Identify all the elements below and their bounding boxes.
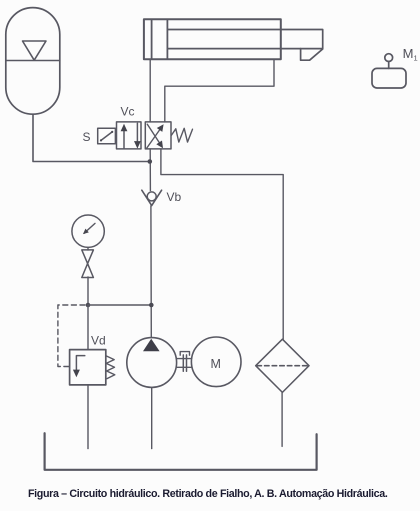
motor <box>191 337 241 387</box>
relief valve Vd body <box>70 350 106 385</box>
valve Vc left position box <box>117 122 142 149</box>
solenoid S <box>98 128 116 144</box>
wire valve P port down through node A to check valve <box>149 149 151 191</box>
pressure gauge needle <box>84 223 95 233</box>
valve Vc crossed arrows <box>147 130 160 148</box>
wire shutoff valve to node B <box>87 277 89 305</box>
accumulator <box>6 8 60 115</box>
accumulator gas/fluid separator line <box>6 60 60 62</box>
coupling shaft <box>177 358 192 360</box>
cylinder barrel <box>144 19 281 59</box>
wire node B down to Vd <box>87 305 89 350</box>
pressure gauge <box>72 215 104 247</box>
valve Vc left position arrows <box>123 131 125 149</box>
wire pump to tank <box>151 387 153 448</box>
svg-text:Figura – Circuito hidráulico.: Figura – Circuito hidráulico. Retirado d… <box>28 488 388 500</box>
relief valve Vd spring <box>106 356 115 379</box>
cylinder piston <box>151 20 153 58</box>
check valve Vb seat <box>142 190 162 205</box>
svg-text:Vd: Vd <box>91 334 106 348</box>
wire valve T port to filter <box>161 149 283 339</box>
wire gauge to shutoff valve <box>87 247 89 250</box>
pump <box>127 338 177 388</box>
valve Vc spring <box>171 128 192 142</box>
filter <box>256 339 309 392</box>
relief valve Vd internal arrow <box>76 356 84 371</box>
svg-text:M1: M1 <box>403 46 418 63</box>
tank <box>45 433 317 470</box>
svg-text:S: S <box>83 130 91 144</box>
accumulator triangle <box>23 41 47 60</box>
wire cylinder left port to valve <box>149 59 151 122</box>
node C junction dot <box>149 303 154 308</box>
svg-text:Vc: Vc <box>121 105 135 119</box>
wire Vd to tank <box>87 385 89 449</box>
cylinder rod <box>167 30 322 49</box>
svg-text:M: M <box>211 357 221 371</box>
node A junction dot <box>148 159 153 164</box>
pump triangle <box>143 339 160 351</box>
shutoff valve <box>82 250 94 264</box>
wire cylinder right port to valve <box>165 59 274 122</box>
weight stem <box>388 62 390 69</box>
filter element (dashed) <box>257 365 308 367</box>
coupling plates <box>182 355 184 371</box>
wire accumulator to node A <box>33 114 149 161</box>
valve Vc right position box <box>145 122 171 149</box>
wire Vb to pump (through node C) <box>150 206 152 338</box>
wire node B to node C <box>88 304 151 306</box>
wire filter to tank <box>281 392 283 446</box>
node B junction dot <box>86 303 91 308</box>
weight ring <box>385 54 393 62</box>
pilot line (dashed) from node B to Vd <box>58 305 85 367</box>
svg-text:Vb: Vb <box>167 190 182 204</box>
weight body <box>372 68 406 88</box>
coupling bracket <box>180 352 189 356</box>
check valve Vb ball <box>147 192 156 201</box>
cylinder rod end hook <box>301 49 323 61</box>
